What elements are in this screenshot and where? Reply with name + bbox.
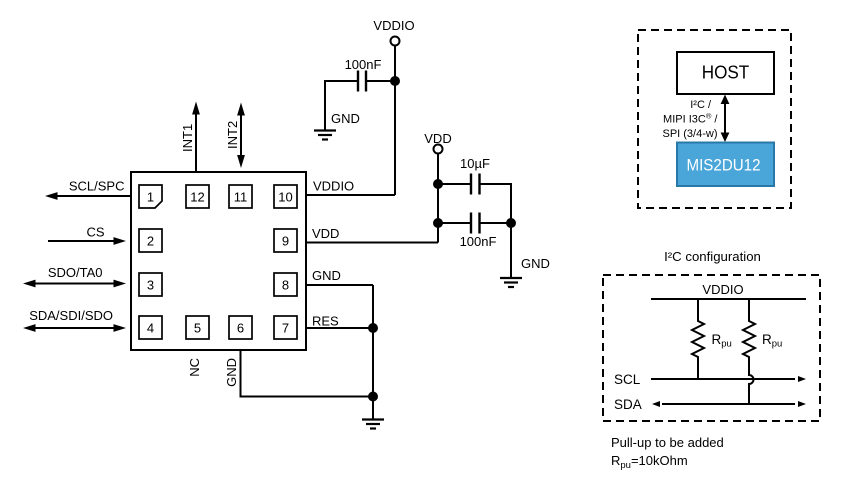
svg-text:VDDIO: VDDIO: [702, 282, 743, 297]
resistor R2 Rpu: [743, 299, 755, 404]
IC body U1: [131, 172, 306, 350]
wire SDA/SDI/SDO: [33, 327, 116, 329]
svg-text:VDD: VDD: [312, 226, 339, 241]
junction GND bottom: [368, 392, 378, 402]
svg-text:MIS2DU12: MIS2DU12: [687, 156, 761, 175]
capacitor C3 100nF: [470, 213, 472, 234]
arrowhead up: [721, 95, 730, 105]
arrowhead SDO/TA0 right: [114, 280, 127, 288]
wire C1 right: [366, 80, 395, 82]
svg-text:Pull-up to be added: Pull-up to be added: [611, 435, 724, 450]
wire CS: [48, 240, 115, 242]
dashed box I2C config: [603, 275, 820, 421]
pin 12: [186, 185, 209, 208]
svg-text:INT1: INT1: [180, 124, 195, 152]
svg-text:GND: GND: [224, 358, 239, 387]
capacitor C2 10uF: [470, 174, 472, 195]
pin 7: [274, 316, 297, 339]
wire GND pin6: [241, 350, 374, 397]
junction C3 right: [506, 218, 516, 228]
wire VDDIO pin10: [306, 194, 395, 196]
svg-text:2: 2: [147, 234, 154, 249]
svg-text:GND: GND: [312, 268, 341, 283]
wire INT1: [195, 113, 197, 172]
arrowhead down: [721, 133, 730, 143]
resistor R1 Rpu: [692, 299, 704, 379]
wire C2 right: [480, 184, 512, 223]
svg-text:GND: GND: [331, 111, 360, 126]
pin 8: [274, 273, 297, 296]
terminal VDDIO: [391, 37, 400, 46]
svg-text:SDA/SDI/SDO: SDA/SDI/SDO: [29, 308, 113, 323]
svg-text:VDDIO: VDDIO: [313, 179, 354, 194]
svg-text:I²C configuration: I²C configuration: [664, 249, 761, 264]
svg-text:SCL: SCL: [614, 372, 641, 387]
svg-text:7: 7: [282, 321, 289, 336]
svg-text:100nF: 100nF: [460, 234, 497, 249]
wire to ground VDD: [510, 223, 512, 277]
svg-text:9: 9: [282, 234, 289, 249]
dashed box HOST diagram: [638, 30, 791, 208]
svg-text:10µF: 10µF: [460, 156, 490, 171]
svg-text:12: 12: [190, 190, 204, 205]
svg-text:5: 5: [194, 321, 201, 336]
arrowhead SDA/SDI/SDO left: [23, 324, 36, 332]
wire SDO/TA0: [33, 283, 116, 285]
ground C1: [314, 131, 336, 140]
wire SCL: [651, 378, 795, 380]
pin 11: [229, 185, 252, 208]
wire C3 left: [438, 222, 471, 224]
wire VDD pin9: [306, 242, 438, 244]
svg-text:NC: NC: [187, 358, 202, 377]
box HOST: [677, 52, 774, 94]
arrowhead SCL/SPC left: [45, 192, 58, 200]
wire VDDIO vertical: [394, 46, 396, 196]
svg-text:3: 3: [147, 278, 154, 293]
svg-text:11: 11: [234, 190, 248, 205]
wire INT2: [240, 114, 242, 157]
svg-text:SDA: SDA: [614, 397, 642, 412]
pin 2: [139, 229, 162, 252]
junction VDD/C2: [433, 179, 443, 189]
svg-text:4: 4: [147, 321, 154, 336]
arrowhead SDO/TA0 left: [23, 280, 36, 288]
arrowhead CS right: [114, 237, 127, 245]
wire C3 right: [480, 222, 512, 224]
wire GND pin8: [306, 284, 373, 286]
wire GND vertical: [372, 285, 374, 419]
junction RES/GND: [368, 323, 378, 333]
arrowhead SCL right: [798, 376, 806, 382]
svg-text:I²C /: I²C /: [690, 99, 712, 111]
pin 1: [139, 185, 162, 208]
wire SCL/SPC: [57, 195, 131, 197]
svg-text:CS: CS: [86, 225, 104, 240]
svg-text:10: 10: [278, 190, 292, 205]
pin 5: [186, 316, 209, 339]
svg-text:VDDIO: VDDIO: [373, 18, 414, 33]
wire C1 left: [325, 81, 358, 130]
terminal VDD: [434, 145, 443, 154]
junction VDD/C3: [433, 218, 443, 228]
wire VDDIO rail: [651, 298, 806, 300]
junction VDDIO/C1: [390, 76, 400, 86]
svg-text:RES: RES: [312, 314, 339, 329]
svg-text:8: 8: [282, 278, 289, 293]
svg-text:GND: GND: [521, 256, 550, 271]
ground VDD: [500, 278, 522, 287]
pin 3: [139, 273, 162, 296]
wire VDD vertical: [437, 154, 439, 243]
wire HOST-MIS2DU12: [724, 102, 726, 134]
arrowhead INT1 up: [192, 102, 200, 115]
svg-text:1: 1: [147, 190, 154, 205]
arrowhead SDA left: [652, 401, 660, 407]
pin 10: [274, 185, 297, 208]
wire SDA: [662, 403, 795, 405]
box MIS2DU12: [677, 143, 774, 187]
svg-text:6: 6: [237, 321, 244, 336]
pin 9: [274, 229, 297, 252]
svg-text:HOST: HOST: [702, 62, 750, 83]
arrowhead INT2 up: [237, 103, 245, 116]
arrowhead SDA right: [798, 401, 806, 407]
svg-text:100nF: 100nF: [345, 57, 382, 72]
svg-text:INT2: INT2: [225, 121, 240, 149]
ground bottom: [362, 420, 384, 429]
arrowhead SDA/SDI/SDO right: [114, 324, 127, 332]
pin 6: [229, 316, 252, 339]
wire C2 left: [438, 183, 471, 185]
capacitor C1 100nF: [357, 71, 359, 92]
wire RES pin7: [306, 327, 373, 329]
pin 4: [139, 316, 162, 339]
arrowhead INT2 down: [237, 155, 245, 168]
svg-text:SDO/TA0: SDO/TA0: [48, 265, 103, 280]
svg-text:SCL/SPC: SCL/SPC: [69, 179, 125, 194]
svg-text:SPI (3/4-w): SPI (3/4-w): [662, 128, 717, 140]
